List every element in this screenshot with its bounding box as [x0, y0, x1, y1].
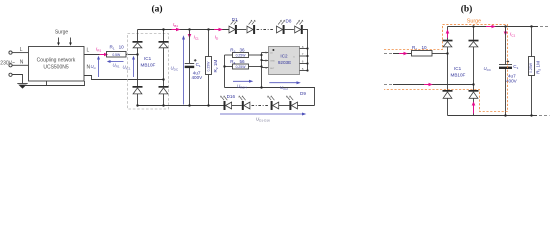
bridge diode bottom-right — [159, 86, 169, 94]
wire bottom rail continuation dashed (b) — [539, 115, 550, 117]
wire D1-D2 — [237, 29, 246, 31]
svg-text:56: 56 — [240, 59, 246, 64]
surge arrow 2 into coupling network — [69, 38, 72, 46]
svg-text:0.25W: 0.25W — [236, 54, 247, 58]
capacitor C1 electrolytic 4u7 400V (b) — [499, 27, 519, 116]
svg-text:LD: LD — [270, 52, 273, 54]
node R3 right junction — [260, 54, 262, 56]
node bridge AC right (b) — [472, 83, 474, 85]
resistor R1 (10 ohm 0.5W) — [107, 45, 127, 57]
wire bottom rail to D16 — [222, 105, 225, 107]
voltage arrow U_IC2 — [269, 81, 301, 91]
wire R3 right to IC2 bus — [249, 54, 262, 56]
svg-text:D16: D16 — [227, 94, 236, 99]
svg-text:0.25W: 0.25W — [207, 61, 211, 72]
terminal L (230V input live) — [9, 47, 23, 54]
wire bridge right branch — [163, 30, 165, 106]
node bridge plus (b) — [472, 25, 474, 27]
PE rail under coupling network — [25, 81, 85, 86]
bridge diode bottom-right (b) — [469, 90, 479, 98]
wire R1 to bridge (b) — [432, 53, 448, 55]
wire sense bus left — [224, 55, 226, 88]
node bridge AC left (b) — [446, 52, 448, 54]
svg-text:0.25W: 0.25W — [236, 65, 247, 69]
node R2 top (b) — [530, 25, 532, 27]
wire R4 right to IC2 bus — [249, 66, 262, 68]
surge path orange dashed — [384, 24, 508, 111]
wire DC top rail (b) — [448, 26, 539, 28]
node C1 bottom (b) — [504, 114, 506, 116]
current arrow up through bottom-right diode (b) — [472, 101, 476, 113]
current arrow I_C1 (b) — [504, 28, 516, 38]
svg-text:D1: D1 — [232, 17, 238, 22]
svg-text:(b): (b) — [461, 4, 473, 15]
voltage arrow U_R1 — [107, 60, 124, 69]
wire N terminal to coupling network — [12, 64, 28, 66]
terminal PE — [9, 73, 12, 76]
node IC2 pin5 rail junction — [306, 69, 308, 71]
IC1 dashed package outline — [128, 34, 169, 110]
resistor R1 (10 ohm) part b — [412, 45, 433, 56]
wire DC bottom rail (b) — [448, 115, 538, 117]
wire R3 left to sense bus — [225, 54, 233, 56]
wire PE terminal to ground — [12, 75, 22, 84]
wire IC2 pin5 stub — [300, 70, 308, 72]
svg-text:230V~: 230V~ — [0, 60, 15, 66]
wire IC2 pin8 stub — [300, 48, 308, 50]
svg-text:2: 2 — [265, 58, 267, 62]
wire bridge left branch (b) — [447, 27, 449, 116]
resistor R3 (36 0.25W) — [230, 47, 248, 57]
wire D9 anode to string return corner — [298, 105, 315, 107]
svg-text:UCS500N5: UCS500N5 — [43, 65, 69, 71]
wire sense return to LED string — [225, 88, 315, 106]
current arrow up through top-left diode (b) — [446, 29, 450, 38]
bridge diode bottom-left (b) — [443, 90, 453, 98]
wire IC2 right rail — [307, 49, 309, 71]
wire L terminal to coupling network — [12, 52, 28, 54]
LED D9 — [286, 91, 306, 110]
coupling network box — [29, 47, 85, 82]
wire N lead-in dashed — [384, 84, 393, 86]
voltage arrow U_R3/4 — [233, 80, 253, 90]
svg-text:IC2: IC2 — [280, 54, 288, 59]
current arrow on N line — [424, 83, 433, 87]
wire N from coupling network to bridge — [84, 76, 164, 80]
ground — [17, 84, 27, 89]
wire IC2 pin1 stub — [262, 52, 269, 54]
LED D1 — [229, 17, 238, 34]
svg-text:Coupling network: Coupling network — [37, 58, 76, 64]
svg-text:36: 36 — [240, 47, 246, 52]
wire R4 left to sense bus — [225, 66, 233, 68]
LED D16 — [220, 94, 235, 110]
svg-text:IC1: IC1 — [454, 66, 462, 71]
wire dashed continuation bottom LED string — [252, 105, 270, 107]
surge arrow 1 into coupling network — [57, 38, 60, 46]
wire bridge left branch — [137, 30, 139, 106]
bridge diode bottom-left — [133, 86, 143, 94]
current arrow I_R1 — [96, 46, 108, 56]
wire D16-D15 — [232, 105, 242, 107]
resistor R2 (1M 0.25W) vertical — [206, 30, 219, 106]
node C1 top — [188, 28, 190, 30]
wire D7-D8 — [285, 29, 294, 31]
wire L lead-in dashed — [384, 53, 393, 55]
terminal N (230V input neutral) — [9, 59, 24, 67]
svg-text:0.25W: 0.25W — [529, 62, 533, 73]
LED D15 — [238, 96, 250, 111]
svg-text:4: 4 — [265, 66, 267, 70]
LED D7 — [277, 20, 286, 34]
node R2 bottom — [207, 104, 209, 106]
node R2 top — [207, 28, 209, 30]
node R4 left junction — [223, 65, 225, 67]
voltage arrow U_in — [91, 56, 101, 77]
node R4 right junction — [260, 65, 262, 67]
current arrow I_C1 — [188, 31, 199, 41]
node IC2 bus to return wire — [260, 86, 262, 88]
svg-text:9203E: 9203E — [278, 60, 291, 65]
svg-text:10: 10 — [119, 45, 125, 50]
svg-text:D8: D8 — [286, 19, 292, 24]
bridge diode top-left — [133, 41, 143, 48]
bridge diode top-right (b) — [469, 40, 479, 47]
resistor R2 (1M 0.25W) vertical (b) — [529, 27, 542, 116]
wire IC2 pin2 stub — [262, 60, 269, 62]
svg-text:D9: D9 — [300, 91, 306, 96]
svg-text:L: L — [87, 48, 90, 54]
node C1 bottom — [188, 104, 190, 106]
current arrow I_D — [214, 28, 223, 41]
wire R1 to bridge — [126, 54, 138, 56]
capacitor C1 electrolytic 4u7 400V — [185, 30, 203, 106]
current arrow I_B1 on top rail — [172, 22, 181, 31]
svg-text:400V: 400V — [192, 75, 204, 80]
node bridge plus — [162, 28, 164, 30]
voltage arrow U_D1-D16 — [220, 113, 306, 123]
wire IC2 left bus — [261, 53, 263, 88]
op IC2 9203E linear LED driver — [265, 45, 304, 75]
node IC2 pin8 rail junction — [306, 47, 308, 49]
node IC2 pin2 bus junction — [260, 59, 262, 61]
wire N line to bridge (b) — [393, 84, 474, 86]
svg-text:L: L — [20, 47, 23, 53]
wire L from coupling network to R1 — [84, 54, 106, 56]
wire dashed continuation top LED string — [257, 29, 275, 31]
wire top rail continuation dashed (b) — [540, 26, 550, 28]
bridge diode top-left (b) — [443, 40, 453, 47]
wire DC bottom rail — [138, 105, 224, 107]
wire IC2 pin4 stub — [262, 67, 269, 69]
node bridge AC right — [162, 78, 164, 80]
wire DC top rail — [138, 29, 230, 31]
IC1 label MB10F — [141, 56, 156, 67]
svg-text:IC1: IC1 — [144, 56, 152, 61]
node bridge AC left — [136, 53, 138, 55]
wire bridge right branch (b) — [473, 27, 475, 116]
node IC2 pin7 rail junction — [306, 55, 308, 57]
LED D2 — [247, 20, 256, 34]
svg-text:MB10F: MB10F — [141, 62, 156, 67]
bridge diode top-right — [159, 41, 169, 48]
svg-text:MB10F: MB10F — [451, 72, 466, 77]
current arrow on L line — [399, 52, 408, 56]
current arrow on top rail (b) — [486, 25, 496, 29]
resistor R4 (56 0.25W) — [230, 59, 248, 69]
node R2 bottom (b) — [530, 114, 532, 116]
wire IC2 pin7 stub — [300, 55, 308, 57]
svg-text:Surge: Surge — [55, 29, 69, 35]
svg-text:(a): (a) — [151, 4, 162, 15]
PE stub from coupling network — [46, 81, 48, 86]
node IC2 pin6 rail junction — [306, 62, 308, 64]
IC1 label MB10F (b) — [451, 66, 466, 77]
wire IC2 pin6 stub — [300, 63, 308, 65]
svg-text:GND: GND — [270, 60, 275, 62]
svg-text:1: 1 — [265, 50, 267, 54]
svg-text:SET: SET — [270, 68, 275, 70]
svg-text:0.5W: 0.5W — [112, 53, 121, 57]
wire D8 cathode down right side — [303, 30, 308, 49]
node bridge bottom-left — [136, 104, 138, 106]
wire L line to R1 — [393, 53, 411, 55]
LED D8 — [286, 19, 304, 34]
svg-text:N: N — [20, 59, 24, 65]
voltage arrow U_DC — [171, 35, 186, 104]
LED D10 — [267, 96, 279, 111]
svg-text:Surge: Surge — [467, 19, 481, 25]
voltage arrow U_IC1 — [123, 56, 136, 77]
node C1 top (b) — [504, 25, 506, 27]
node bridge minus — [162, 104, 164, 106]
wire D10-D9 — [279, 105, 290, 107]
